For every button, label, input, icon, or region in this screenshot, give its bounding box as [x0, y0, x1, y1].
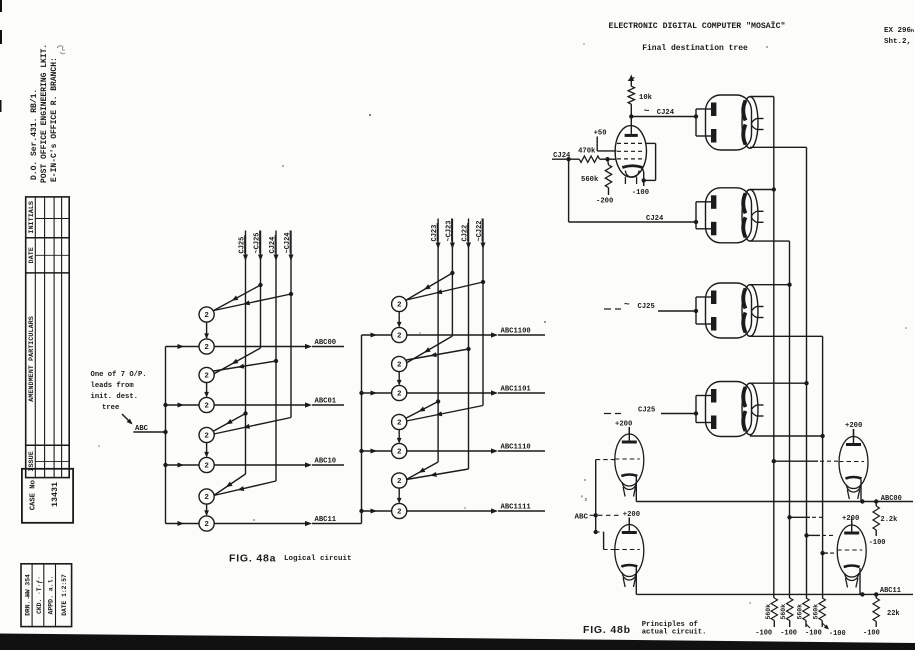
svg-text:2: 2 [397, 333, 402, 341]
caption: FIG. 48b [583, 624, 631, 636]
gate circle G3 (col2) [392, 356, 407, 371]
resistor 10k [628, 86, 634, 104]
label: ~CJ24 (rotated) [284, 231, 292, 254]
supply arrow (top) [628, 75, 635, 87]
wire: 10k to anode node [630, 104, 632, 116]
svg-text:2: 2 [397, 509, 402, 517]
svg-text:AMENDMENT PARTICULARS: AMENDMENT PARTICULARS [28, 316, 36, 402]
label: ABC00 [315, 339, 337, 347]
svg-text:+200: +200 [842, 515, 859, 523]
tube T1 (double triode) [696, 95, 764, 150]
svg-text:~CJ25: ~CJ25 [254, 232, 262, 253]
table header: ISSUE [28, 451, 36, 471]
svg-text:470k: 470k [578, 148, 596, 156]
wire: T2 cathode lead to bus2 [750, 240, 790, 242]
svg-text:ABC11: ABC11 [315, 516, 337, 524]
label: +200 (V5) [842, 515, 859, 523]
wire: bus3 dangling stub [804, 533, 833, 537]
svg-text:ABC1110: ABC1110 [501, 444, 531, 452]
label: 10k [639, 94, 653, 102]
wire: T2 anode lead to bus1 [750, 187, 776, 191]
wire: G1-G2 link [204, 322, 209, 339]
gate circle G7 (col1) [199, 489, 214, 504]
gate circle G8 (col2) [392, 503, 407, 518]
label: +200 (V2) [615, 421, 632, 429]
label: ABC1111 [501, 504, 532, 512]
svg-text:actual circuit.: actual circuit. [642, 629, 707, 637]
wire: ~CJ24 to T1 grid [631, 116, 696, 118]
wire: T4 cathode lead to bus4 [750, 434, 825, 438]
label: -100 (22k) [863, 630, 880, 638]
svg-text:2: 2 [204, 521, 209, 529]
resistor 560k #2 [787, 598, 793, 627]
gate circle G1 (col1) [199, 307, 214, 322]
node: T3 input [694, 309, 698, 313]
svg-text:EX 296ₕ: EX 296ₕ [884, 27, 914, 35]
svg-text:+50: +50 [594, 130, 607, 138]
gate circle G6 (col1) [199, 457, 214, 472]
svg-text:~CJ24: ~CJ24 [284, 232, 292, 253]
svg-text:POST OFFICE ENGINEERING LKIT.: POST OFFICE ENGINEERING LKIT. [40, 44, 49, 183]
wire: G5-G6 link (col2) [397, 430, 402, 444]
svg-text:ABC: ABC [135, 425, 149, 433]
svg-text:ABC1111: ABC1111 [501, 504, 532, 512]
label: 560k (V1 grid) [581, 176, 599, 184]
amendment table frame [26, 197, 69, 478]
svg-text:-100: -100 [829, 630, 846, 638]
wire: V5 cathode drop [860, 568, 865, 597]
svg-text:DATE 1:2:57: DATE 1:2:57 [61, 574, 68, 616]
label: CJ24 (input) [553, 152, 571, 160]
svg-text:-100: -100 [869, 539, 886, 547]
resistor 470k [579, 156, 607, 162]
svg-text:INITIALS: INITIALS [28, 201, 36, 234]
label: CJ24 (at T2) [646, 215, 664, 223]
svg-text:One of 7 O/P.: One of 7 O/P. [91, 371, 147, 379]
svg-text:'₂: '₂ [580, 495, 588, 502]
wire: ABC to V3 grid (dashed step) [596, 532, 615, 550]
label: +200 (V3) [623, 511, 640, 519]
label: CJ24 (rotated) [269, 235, 277, 253]
node: V1 grid node [605, 157, 609, 161]
label: ABC [135, 425, 149, 433]
table header: INITIALS [28, 201, 36, 234]
svg-text:-100: -100 [863, 630, 880, 638]
svg-text:Logical circuit: Logical circuit [284, 555, 352, 563]
node: bus junctions col2 [359, 391, 363, 513]
svg-text:2: 2 [397, 302, 402, 310]
label: ABC11 [880, 587, 901, 595]
wire: arrow to ABC [122, 414, 133, 425]
gate circle G5 (col2) [392, 414, 407, 429]
tube V5 (ABC11 right) [837, 518, 866, 588]
wire: output ABC1111 [407, 508, 545, 513]
wire: T1 anode lead to bus1 [750, 96, 774, 98]
wire: output ABC1100 [407, 332, 545, 337]
svg-text:CJ25: CJ25 [638, 303, 655, 311]
svg-text:Final destination tree: Final destination tree [642, 44, 748, 53]
wire: +200 lead V4 [853, 429, 855, 437]
gate circle G4 (col2) [392, 385, 407, 400]
svg-text:-100: -100 [755, 630, 772, 638]
wire: CJ24 input [552, 158, 579, 160]
caption: Logical circuit [284, 555, 352, 563]
svg-text:CJ23: CJ23 [431, 225, 439, 242]
gate circle G8 (col1) [199, 516, 214, 531]
svg-text:~CJ23: ~CJ23 [445, 220, 453, 241]
tube V3 (ABC11 left) [615, 518, 644, 588]
label: -100 #2 [780, 630, 797, 638]
V1 cathode [622, 166, 643, 186]
svg-text:-100: -100 [780, 630, 797, 638]
svg-text:2: 2 [204, 403, 209, 411]
wire: G7-G8 link (col2) [397, 488, 402, 503]
wire: bus for column 2 (from ABC11) [362, 333, 392, 524]
tube V2 (ABC00 left) [615, 427, 644, 497]
gate circle G5 (col1) [199, 427, 214, 442]
wire: output ABC11 [214, 521, 361, 526]
label: -100 (V1 cathode) [632, 189, 649, 197]
node: CJ24 split [566, 157, 570, 161]
node: ABC11/22k [874, 592, 878, 596]
svg-text:+200: +200 [845, 422, 862, 430]
tube T4 (double triode) [696, 382, 764, 437]
svg-text:ELECTRONIC DIGITAL COMPUTER "M: ELECTRONIC DIGITAL COMPUTER "MOSAÏC" [609, 20, 786, 31]
svg-text:CJ22: CJ22 [462, 225, 470, 242]
label: ABC11 [315, 516, 337, 524]
label: +50 [594, 130, 607, 138]
wire: G7-G8 link [204, 504, 209, 516]
gate circle G6 (col2) [392, 443, 407, 458]
subtitle: Final destination tree [642, 44, 748, 53]
svg-text:2: 2 [204, 433, 209, 441]
gate circle G2 (col2) [392, 327, 407, 342]
label: ABC (48b) [575, 514, 589, 522]
wire: CJ25 input to T4 [604, 413, 696, 415]
wire: G3-G4 link (col2) [397, 372, 402, 386]
arrow: 560k#3 to -100 [806, 624, 810, 628]
label: 470k [578, 148, 596, 156]
node: T4 input [694, 411, 698, 415]
note: POST OFFICE ENGINEERING LKIT (rotated) [40, 44, 49, 183]
wire: grid node to V1 grid [608, 158, 617, 160]
wire: bus 3 [806, 147, 808, 598]
label: 560k #1 (rotated) [765, 604, 772, 620]
resistor 560k #3 [803, 598, 809, 627]
wire: T3 cathode lead to bus4 [750, 335, 823, 337]
wire: ABC00 output line [636, 477, 913, 502]
label: ABC1101 [501, 386, 532, 394]
wire: ABC11 output line [636, 568, 913, 595]
resistor 560k #1 [771, 598, 777, 627]
svg-text:2: 2 [204, 494, 209, 502]
gate circle G3 (col1) [199, 367, 214, 382]
svg-text:DRN. ̶H̶W 354: DRN. ̶H̶W 354 [25, 574, 32, 616]
svg-text:2.2k: 2.2k [881, 516, 898, 524]
svg-text:~: ~ [644, 106, 650, 117]
label: ~CJ23 (rotated) [445, 219, 453, 242]
note: D.O. Ser.431 RB/1 (rotated) [30, 89, 39, 180]
case number box [22, 469, 73, 523]
label: 560k #4 (rotated) [813, 604, 820, 620]
wire: G3-G4 link [204, 383, 209, 398]
wire: V2 grid dashed to ABC rail [596, 459, 615, 461]
label: -100 #3 [805, 630, 822, 638]
svg-text:FIG. 48b: FIG. 48b [583, 624, 631, 636]
wire: input line CJ22 [406, 219, 471, 480]
wire: bus 1 [773, 97, 775, 599]
node: T1 input [694, 114, 698, 118]
label: ~ CJ24 [644, 106, 675, 118]
svg-text:2: 2 [204, 373, 209, 381]
caption: Principles of actual circuit [642, 621, 707, 637]
resistor 22k [873, 594, 879, 627]
svg-text:ABC1101: ABC1101 [501, 386, 532, 394]
wire: V1 screen loop [644, 143, 656, 180]
wire: bus4 to V5 grid [820, 551, 838, 555]
wire: CJ24 to T2 input [569, 159, 696, 222]
svg-text:CASE No.: CASE No. [30, 476, 38, 511]
svg-text:560k: 560k [765, 604, 772, 620]
svg-text:22k: 22k [887, 610, 900, 618]
wire: input line ~CJ23 [406, 219, 455, 364]
svg-text:560k: 560k [780, 604, 787, 620]
svg-text:CJ25: CJ25 [239, 237, 247, 254]
svg-text:560k: 560k [813, 604, 820, 620]
table header: AMENDMENT PARTICULARS [28, 316, 36, 402]
wire: ~CJ25 input to T3 [604, 309, 696, 311]
label: ABC1100 [501, 328, 531, 336]
wire: bus 2 [789, 241, 791, 598]
svg-text:leads from: leads from [91, 382, 135, 390]
wire: ABC input bus (col1) [166, 344, 199, 526]
gate circle G4 (col1) [199, 397, 214, 412]
svg-text:CJ24: CJ24 [646, 215, 664, 223]
label: 22k [887, 610, 900, 618]
svg-text:-100: -100 [632, 189, 649, 197]
label: ~CJ25 (rotated) [254, 231, 262, 254]
title: ELECTRONIC DIGITAL COMPUTER "MOSAIC" [609, 20, 786, 31]
label: -100 #4 [829, 630, 846, 638]
scan artifact: left edge ticks [0, 0, 2, 112]
svg-text:FIG. 48a: FIG. 48a [229, 553, 276, 565]
svg-text:CJ24: CJ24 [657, 109, 675, 117]
svg-text:ABC11: ABC11 [880, 587, 901, 595]
wire: input line ~CJ25 [214, 231, 263, 375]
svg-text:+200: +200 [623, 511, 640, 519]
resistor 2.2k [873, 502, 879, 537]
wire: input line ~CJ22 [406, 219, 485, 422]
wire: V4 cathode drop [860, 480, 864, 504]
label: CJ25 (rotated) [239, 235, 247, 253]
label: -100 (2.2k) [869, 539, 886, 547]
wire: output ABC00 [214, 344, 344, 349]
tube V4 (ABC00 right) [839, 430, 868, 500]
wire: +200 lead V3 [628, 518, 630, 525]
annotation: One of 7 O/P. leads from init. dest. tree [91, 371, 147, 412]
svg-text:560k: 560k [581, 176, 599, 184]
gate circle G2 (col1) [199, 339, 214, 354]
resistor 560k (V1 grid) [605, 159, 611, 195]
approval box DRN/CKD/APPD/DATE [21, 564, 72, 627]
wire: bus 4 [822, 336, 824, 598]
wire: ABC dangling dashes [598, 514, 622, 516]
label: CJ25 [638, 407, 655, 415]
svg-text:2: 2 [397, 420, 402, 428]
label: -100 #1 [755, 630, 772, 638]
label: CJ23 (rotated) [431, 223, 439, 241]
wire: input line CJ25 [214, 231, 248, 496]
wire: G1-G2 link (col2) [397, 312, 402, 328]
svg-text:DATE: DATE [28, 247, 36, 263]
svg-text:init. dest.: init. dest. [91, 393, 138, 401]
svg-text:~CJ22: ~CJ22 [476, 220, 484, 241]
svg-text:560k: 560k [797, 604, 804, 620]
svg-text:-200: -200 [596, 198, 613, 206]
label: 560k #3 (rotated) [797, 604, 804, 620]
node: bus junctions col1 [163, 403, 167, 467]
svg-text:2: 2 [397, 449, 402, 457]
annotation: half mark [580, 495, 588, 502]
label: ~ CJ25 [624, 299, 655, 311]
wire: bus2 dangling stub [787, 515, 825, 519]
sheet ref: EX 296 Sht.2 [884, 27, 914, 46]
wire: T4 anode lead to bus3 [750, 381, 809, 385]
label: -200 [596, 198, 613, 206]
node: ABC entry [590, 513, 598, 517]
svg-text:2: 2 [204, 312, 209, 320]
svg-text:10k: 10k [639, 94, 653, 102]
wire: +50 to screen grid [597, 137, 616, 151]
label: ABC10 [315, 458, 337, 466]
wire: input line ~CJ24 [214, 231, 294, 435]
label: 560k #2 (rotated) [780, 604, 787, 620]
label: +200 (V4) [845, 422, 862, 430]
svg-text:2: 2 [397, 362, 402, 370]
tube T3 (double triode) [696, 283, 764, 338]
caption: FIG. 48a [229, 553, 276, 565]
wire: output ABC1101 [407, 390, 545, 395]
svg-text:~: ~ [624, 299, 630, 310]
wire: output ABC1110 [407, 448, 545, 453]
svg-text:Sht.2,: Sht.2, [884, 38, 911, 46]
node: ABC to V3 [594, 530, 598, 534]
svg-text:2: 2 [397, 478, 402, 486]
svg-text:13431: 13431 [51, 482, 60, 507]
node: V1 cathode/suppressor join [642, 178, 646, 182]
svg-text:ABC: ABC [575, 514, 589, 522]
svg-text:ABC00: ABC00 [881, 495, 902, 503]
tube V1 (input pentode) [615, 117, 646, 178]
wire: ABC entry [133, 431, 165, 433]
svg-text:CJ24: CJ24 [269, 237, 277, 254]
node: V1 anode [629, 114, 633, 118]
svg-text:tree: tree [102, 404, 119, 412]
svg-text:2: 2 [204, 463, 209, 471]
wire: +200 lead V5 [851, 523, 853, 526]
wire: input line CJ23 [406, 219, 440, 480]
table header: DATE [28, 247, 36, 263]
wire: G5-G6 link [204, 443, 209, 458]
wire: output ABC01 [214, 402, 344, 407]
resistor 560k #4 [819, 598, 825, 627]
wire: ABC rail vertical [595, 460, 597, 532]
label: CJ22 (rotated) [462, 223, 470, 241]
svg-text:ABC10: ABC10 [315, 458, 337, 466]
svg-text:CKD. ·T·ƒ·: CKD. ·T·ƒ· [36, 576, 43, 614]
svg-text:-100: -100 [805, 630, 822, 638]
wire: output ABC10 [214, 462, 344, 467]
node: T2 input [694, 220, 698, 224]
node: ABC00/2.2k [874, 499, 878, 503]
arrow: 560k#4 to -100 [822, 623, 829, 630]
svg-text:APPD. a.l.: APPD. a.l. [48, 575, 55, 614]
wire: T3 anode lead to bus2 [750, 283, 792, 287]
note: E-IN-C's OFFICE R. BRANCH (rotated) [50, 57, 59, 182]
wire: +200 lead V2 [628, 427, 630, 434]
label: 2.2k [881, 516, 898, 524]
gate circle G7 (col2) [392, 473, 407, 488]
label: ABC01 [315, 398, 337, 406]
svg-text:2: 2 [204, 344, 209, 352]
label: ABC00 [881, 495, 902, 503]
wire: bus1 to V4 grid [772, 459, 839, 463]
svg-text:ABC1100: ABC1100 [501, 328, 531, 336]
svg-text:ABC00: ABC00 [315, 339, 337, 347]
svg-text:CJ25: CJ25 [638, 407, 655, 415]
svg-text:E-IN-C's OFFICE R. BRANCH:: E-IN-C's OFFICE R. BRANCH: [50, 57, 59, 182]
wire: input line CJ24 [214, 231, 279, 496]
scan artifact: bottom black wedge [0, 634, 915, 650]
label: ~CJ22 (rotated) [476, 219, 484, 242]
label: ABC1110 [501, 444, 531, 452]
tube T2 (double triode) [696, 188, 764, 243]
wire: T1 cathode lead to bus3 [750, 146, 807, 148]
svg-text:ABC01: ABC01 [315, 398, 337, 406]
svg-text:D.O. Ser.431. RB/1.: D.O. Ser.431. RB/1. [30, 89, 39, 180]
gate circle G1 (col2) [392, 296, 407, 311]
svg-text:2: 2 [397, 391, 402, 399]
